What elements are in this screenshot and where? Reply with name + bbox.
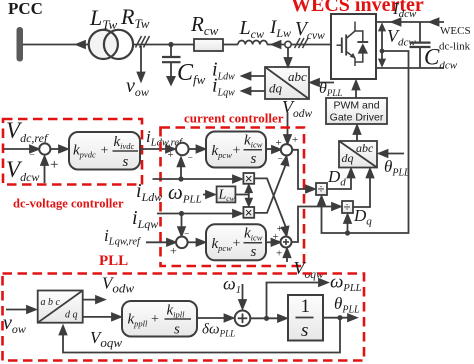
svg-text:+: + (151, 312, 159, 327)
svg-text:Cfw: Cfw (177, 60, 206, 87)
wire i_Ldw up to S2 (180, 162, 182, 179)
wire omega to L_cw gain (203, 194, 210, 196)
svg-text:−: − (188, 154, 193, 164)
svg-text:Lcw: Lcw (239, 17, 264, 41)
svg-text:Vodw: Vodw (102, 274, 134, 296)
svg-text:Gate Driver: Gate Driver (330, 112, 384, 124)
svg-text:s: s (301, 320, 308, 341)
PWM and Gate Driver block (326, 98, 387, 124)
summer S3 (d-axis output) (281, 144, 292, 155)
PLL dashed box (3, 274, 365, 361)
svg-text:d q: d q (65, 310, 78, 321)
svg-text:Vdcw: Vdcw (6, 157, 39, 184)
node dot on feed (345, 230, 350, 235)
svg-text:×: × (245, 171, 253, 186)
wire i_Ldw,ref to current controller (140, 148, 172, 150)
summer S4 (q-axis error) (176, 237, 188, 249)
svg-text:ωPLL: ωPLL (330, 272, 362, 295)
abc/dq block U4 (PLL) (38, 291, 83, 323)
svg-text:θPLL: θPLL (334, 294, 360, 316)
node junction dot (168, 42, 173, 47)
svg-text:RTw: RTw (120, 4, 150, 31)
wire transformer to R_cw (133, 44, 194, 46)
wire V_dc,ref input (4, 148, 34, 150)
gain block L_cw (217, 186, 236, 202)
PI block 2 (k_pcw + k_icw/s) (206, 224, 266, 260)
svg-text:Rcw: Rcw (190, 12, 219, 38)
svg-text:WECS: WECS (440, 25, 471, 37)
svg-text:Vdc,ref: Vdc,ref (6, 118, 49, 145)
current controller dashed box (161, 128, 305, 267)
wire PI1 to summer S3 (266, 148, 277, 150)
signal i_Lqw out (248, 90, 265, 92)
svg-text:dq: dq (342, 151, 354, 165)
wire dc top rail (376, 21, 444, 23)
svg-text:Vdcw: Vdcw (387, 26, 416, 49)
wire v_oqw to PI pll (83, 316, 117, 318)
svg-text:−: − (30, 151, 35, 161)
wire cross-coupling X2 to S3 (254, 163, 286, 213)
wire S5 to divider D_q (292, 207, 338, 243)
svg-text:LTw: LTw (89, 5, 118, 32)
svg-text:δωPLL: δωPLL (202, 322, 235, 339)
svg-text:+: + (276, 137, 282, 149)
wire i_Ldw feedback row (153, 178, 238, 180)
svg-text:dc-voltage controller: dc-voltage controller (13, 197, 124, 211)
signal i_Ldw out (248, 75, 265, 77)
multiplier X2 (243, 207, 254, 218)
signal v_odw out (83, 299, 100, 301)
three-phase hash 2 (295, 38, 309, 48)
svg-text:iLqw,ref: iLqw,ref (104, 226, 142, 248)
voltage arrow v_ow (140, 46, 142, 74)
wire PWM to inverter (355, 85, 357, 98)
three-phase hash (136, 36, 150, 48)
wire R_cw to L_cw (223, 44, 238, 46)
svg-text:+: + (233, 237, 241, 252)
wire v_odw into sum (287, 112, 289, 139)
svg-text:dq: dq (269, 81, 283, 96)
node dot on i_Lqw row (179, 211, 184, 216)
svg-text:PCC: PCC (8, 0, 43, 18)
svg-text:θPLL: θPLL (384, 157, 410, 179)
wire L_cw out to multipliers (235, 194, 248, 196)
wire theta_PLL out (323, 317, 352, 319)
node dot omega tap (264, 316, 269, 321)
svg-text:×: × (245, 205, 253, 220)
svg-text:ω1: ω1 (223, 274, 241, 297)
svg-text:abc: abc (356, 141, 374, 155)
svg-text:Voqw: Voqw (90, 328, 122, 350)
svg-text:PWM and: PWM and (333, 100, 379, 112)
transformer T (L_Tw R_Tw) (89, 30, 118, 59)
wire omega_PLL out (267, 283, 325, 319)
wire v_ow input (6, 309, 31, 311)
node circle tap (285, 41, 291, 47)
capacitor C_dcw (419, 22, 421, 42)
svg-text:vow: vow (126, 75, 149, 99)
inverter U1 box (331, 14, 376, 79)
PI block dc (k_pvdc + k_ivdc/s) (50, 148, 64, 150)
svg-text:abc: abc (288, 69, 307, 84)
svg-text:Vcvw: Vcvw (295, 19, 325, 42)
integrator block 1/s (288, 295, 323, 341)
voltage arrow V_dcw (dc link) (381, 27, 383, 63)
svg-text:+: + (276, 248, 282, 260)
svg-text:a b c: a b c (41, 297, 61, 308)
wire S3 to divider D_d (292, 150, 311, 189)
wire L_cw to inverter with I_Lw arrow (267, 44, 331, 46)
svg-text:+: + (50, 157, 58, 173)
svg-text:ωPLL: ωPLL (168, 180, 202, 206)
svg-text:PLL: PLL (99, 253, 128, 269)
wire v_oqw into S5 (286, 252, 288, 262)
IGBT Q with antiparallel diode (337, 22, 369, 67)
wire V_dcw feedback up (44, 159, 46, 183)
resistor R_cw (194, 39, 223, 51)
svg-text:+: + (168, 149, 174, 161)
node dot theta feedback (337, 315, 342, 320)
summer S2 (d-axis error) (176, 143, 189, 156)
wire i_Lqw down to S4 (181, 214, 183, 232)
svg-text:+: + (292, 134, 298, 146)
svg-text:dc-link: dc-link (439, 41, 471, 53)
svg-text:+: + (233, 144, 241, 159)
svg-text:iLqw: iLqw (132, 207, 158, 231)
wire D_d to U3 (327, 172, 351, 189)
svg-text:s: s (174, 322, 180, 338)
wire bus to transformer (23, 44, 89, 46)
svg-text:current controller: current controller (184, 111, 284, 126)
svg-text:Vodw: Vodw (282, 97, 313, 120)
summer S1 (39, 143, 50, 154)
wire D_q to U3 (353, 172, 370, 207)
wire theta_PLL to U2 (315, 82, 334, 84)
wire i_Lqw,ref input (146, 241, 171, 243)
svg-text:vow: vow (3, 312, 26, 336)
svg-text:1: 1 (301, 296, 311, 317)
svg-text:Dq: Dq (353, 206, 372, 228)
wire i_Lqw feedback row (157, 213, 237, 215)
node dot on i_Ldw row (178, 176, 183, 181)
PI block 1 (k_pcw + k_icw/s) (206, 132, 266, 168)
wire theta_PLL to U3 (383, 153, 404, 155)
dc-voltage controller dashed box (3, 119, 142, 185)
summer S5 (q-axis output) (281, 237, 292, 248)
svg-text:s: s (251, 244, 257, 260)
wire cross-coupling X1 to S5 (254, 178, 286, 229)
wire S2 to PI1 (189, 148, 201, 150)
wire S4 to PI2 (188, 241, 201, 243)
svg-text:iLdw: iLdw (136, 180, 162, 204)
divider D_q (342, 201, 353, 213)
wire V_dcw sense feed to dividers (322, 51, 409, 233)
wire PI2 to summer S5 (266, 241, 276, 243)
dq/abc modulation block U3 (339, 141, 377, 168)
divider D_d (316, 183, 327, 195)
wire tap to abc/dq (287, 48, 289, 61)
multiplier X1 (243, 173, 254, 184)
wire PI pll to summer S6 (197, 317, 229, 319)
svg-text:Dd: Dd (327, 167, 346, 189)
wire omega_1 into S6 (242, 284, 244, 305)
wire U3 to PWM (356, 129, 358, 141)
svg-text:s: s (123, 154, 129, 170)
PCC bus bar (17, 27, 24, 62)
svg-text:Voqw: Voqw (294, 258, 325, 281)
wire feed branch to D_q (347, 216, 349, 233)
inductor L_cw coil (238, 41, 267, 45)
svg-text:ILw: ILw (269, 17, 291, 40)
wire dc bottom rail (376, 67, 444, 69)
svg-text:+: + (101, 144, 109, 159)
capacitor C_fw (170, 45, 172, 57)
wire S6 to integrator (250, 317, 284, 319)
svg-text:÷: ÷ (344, 200, 351, 214)
svg-text:÷: ÷ (318, 182, 325, 196)
PI block PLL (k_ppll + k_ipll/s) (122, 301, 197, 337)
svg-text:s: s (251, 151, 257, 167)
wire theta feedback to U4 (63, 318, 340, 353)
summer S6 (235, 311, 251, 327)
svg-text:+: + (277, 223, 283, 235)
abc/dq measurement block U2 (265, 67, 309, 99)
